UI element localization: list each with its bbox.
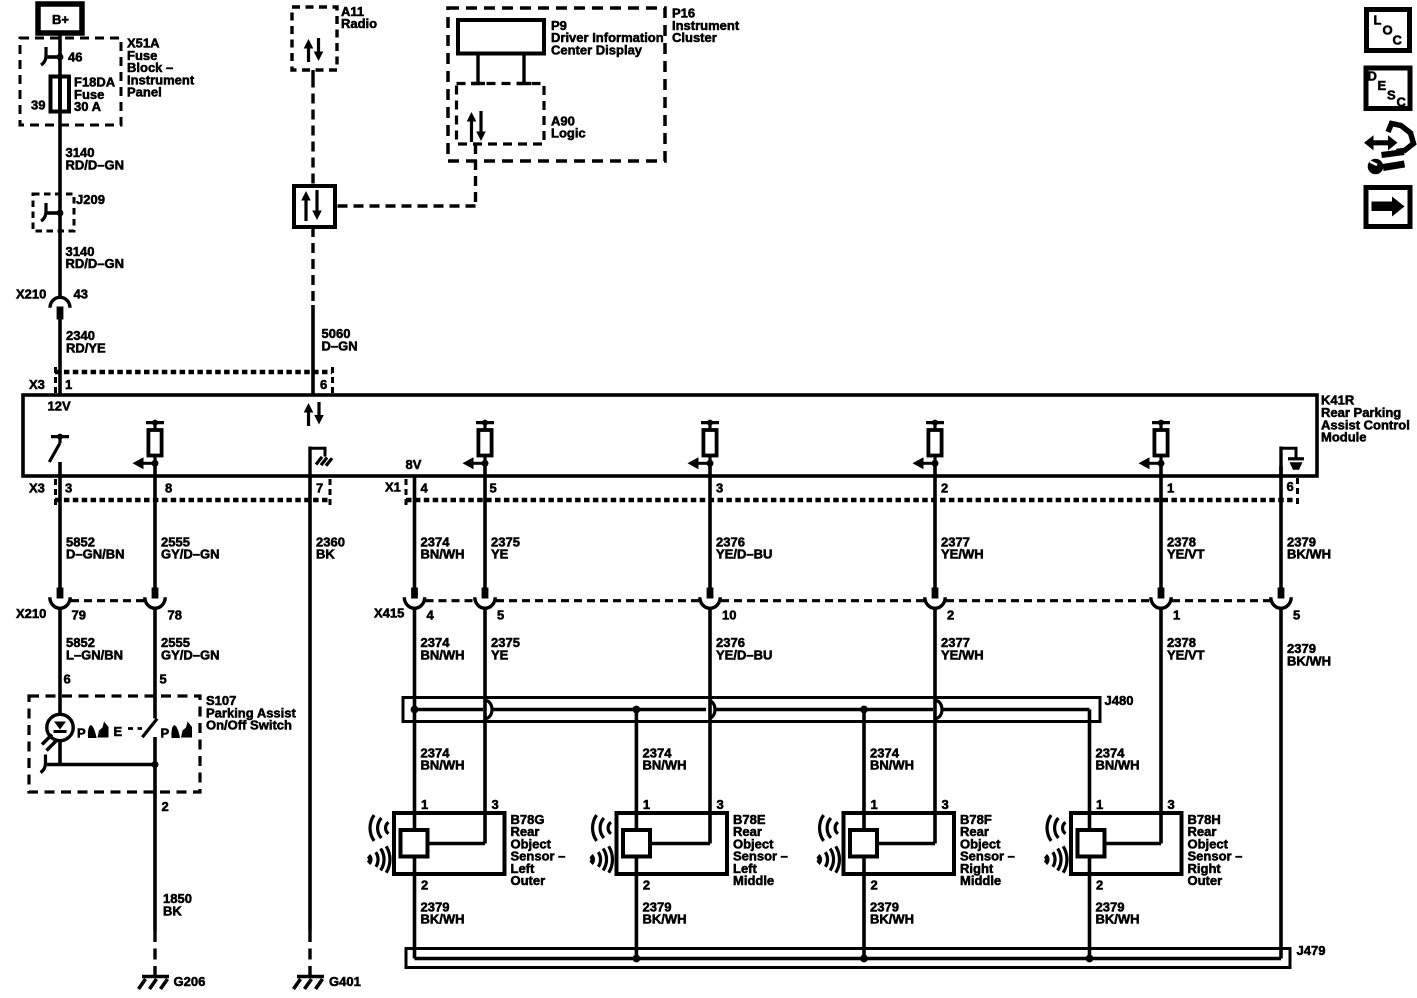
svg-text:YE/WH: YE/WH xyxy=(941,647,984,662)
svg-text:1: 1 xyxy=(1167,481,1174,496)
svg-text:BN/WH: BN/WH xyxy=(643,758,687,773)
svg-text:E: E xyxy=(1378,78,1387,93)
internal driver pin 5 xyxy=(463,420,495,470)
svg-text:C: C xyxy=(1397,94,1407,109)
svg-text:BK/WH: BK/WH xyxy=(1287,653,1331,668)
svg-text:79: 79 xyxy=(72,607,86,622)
svg-text:C: C xyxy=(1393,32,1403,47)
svg-text:Logic: Logic xyxy=(551,126,586,141)
svg-text:RD/YE: RD/YE xyxy=(66,340,106,355)
svg-text:YE/D–BU: YE/D–BU xyxy=(716,547,772,562)
svg-text:RD/D–GN: RD/D–GN xyxy=(66,256,125,271)
connector X210 terminal 43 xyxy=(16,287,88,320)
svg-text:BN/WH: BN/WH xyxy=(870,758,914,773)
svg-text:1: 1 xyxy=(1096,797,1103,812)
instrument cluster P16 dashed box xyxy=(448,6,740,162)
logic block A90 dashed box xyxy=(457,84,586,145)
svg-text:3: 3 xyxy=(492,797,499,812)
legend icon diagnostic tool xyxy=(1364,124,1414,175)
serial data arrows in A11 xyxy=(304,38,324,62)
wire 3140 RD/D-GN lower xyxy=(60,231,124,299)
wire 2379 BK/WH from B78G pin2 xyxy=(415,857,465,959)
svg-text:L: L xyxy=(1374,12,1382,27)
svg-text:8V: 8V xyxy=(406,457,422,472)
parking assist icon right xyxy=(161,722,193,741)
svg-text:BK: BK xyxy=(316,547,335,562)
wire 2377 YE/WH upper xyxy=(935,466,984,588)
svg-text:RD/D–GN: RD/D–GN xyxy=(66,157,125,172)
legend icon LOC xyxy=(1367,10,1410,51)
connector row X1 xyxy=(385,478,1298,505)
wire 2375 YE upper xyxy=(485,466,520,588)
svg-text:BK/WH: BK/WH xyxy=(1096,912,1140,927)
svg-text:39: 39 xyxy=(31,98,45,113)
internal switch at pin 3 xyxy=(49,434,69,462)
svg-text:GY/D–GN: GY/D–GN xyxy=(161,547,220,562)
indicator lamp in S107 xyxy=(42,714,73,750)
svg-text:3: 3 xyxy=(1168,797,1175,812)
splice pack J479 xyxy=(406,943,1325,968)
svg-text:B+: B+ xyxy=(52,12,69,27)
svg-text:Outer: Outer xyxy=(511,873,546,888)
wire 2374 BN/WH upper xyxy=(415,477,465,588)
svg-text:5: 5 xyxy=(160,672,167,687)
ground G401 xyxy=(294,931,361,989)
dashed serial wire A90 to gateway xyxy=(335,144,476,206)
svg-text:D–GN/BN: D–GN/BN xyxy=(66,547,125,562)
wire 2379 BK/WH from B78H pin2 xyxy=(1090,857,1140,959)
sensor B78G xyxy=(369,797,566,893)
svg-text:3: 3 xyxy=(65,481,72,496)
internal driver pin 8 xyxy=(133,420,165,470)
svg-text:E: E xyxy=(114,724,123,739)
svg-text:BN/WH: BN/WH xyxy=(421,547,465,562)
svg-text:D: D xyxy=(1368,69,1377,84)
dashed serial wire A11 to gateway xyxy=(311,70,314,186)
svg-text:Cluster: Cluster xyxy=(672,30,717,45)
svg-text:46: 46 xyxy=(68,50,82,65)
wire 2379 BK/WH upper xyxy=(1281,466,1331,588)
svg-text:BN/WH: BN/WH xyxy=(421,647,465,662)
svg-text:J479: J479 xyxy=(1297,943,1326,958)
svg-text:4: 4 xyxy=(421,481,429,496)
connector row X3 bottom xyxy=(29,479,330,505)
svg-text:5: 5 xyxy=(497,607,504,622)
wire 2374 BN/WH to splice J480 xyxy=(415,609,465,710)
svg-text:BK/WH: BK/WH xyxy=(870,912,914,927)
internal ground pin 6 xyxy=(1281,447,1304,478)
svg-text:P: P xyxy=(161,726,170,741)
wire 2555 GY/D-GN upper xyxy=(155,466,220,588)
splice J209 xyxy=(33,192,105,231)
svg-text:5: 5 xyxy=(1293,607,1300,622)
wire 2375 YE to sensor xyxy=(485,609,520,813)
svg-text:1: 1 xyxy=(871,797,878,812)
svg-text:BK/WH: BK/WH xyxy=(421,912,465,927)
S107 internal wiring xyxy=(41,737,159,792)
splice pack J480 xyxy=(403,693,1133,722)
svg-text:YE/VT: YE/VT xyxy=(1167,547,1205,562)
svg-text:1: 1 xyxy=(643,797,650,812)
svg-text:1: 1 xyxy=(65,377,72,392)
svg-text:2: 2 xyxy=(162,799,169,814)
svg-text:S: S xyxy=(1387,87,1396,102)
pin 2 label S107 xyxy=(162,799,169,814)
svg-text:J480: J480 xyxy=(1105,693,1134,708)
sensor B78F xyxy=(818,797,1015,893)
svg-text:Module: Module xyxy=(1321,430,1367,445)
wire 2374 drop to B78F pin1 xyxy=(864,710,914,831)
svg-text:3: 3 xyxy=(716,481,723,496)
ground G206 xyxy=(139,931,206,989)
pin 6 label at S107 xyxy=(64,672,71,687)
wire 5060 D-GN xyxy=(313,227,358,395)
svg-text:J209: J209 xyxy=(76,192,105,207)
svg-text:Center Display: Center Display xyxy=(551,42,643,57)
driver information center display P9 xyxy=(458,18,664,58)
svg-text:12V: 12V xyxy=(48,399,71,414)
svg-text:Middle: Middle xyxy=(960,873,1001,888)
fuse block X51A dashed box xyxy=(20,36,195,126)
svg-text:Middle: Middle xyxy=(733,873,774,888)
svg-text:X210: X210 xyxy=(16,287,46,302)
terminal 46 in fuse block xyxy=(41,47,82,65)
svg-text:4: 4 xyxy=(427,607,435,622)
svg-text:X210: X210 xyxy=(16,606,46,621)
svg-text:6: 6 xyxy=(64,672,71,687)
connector row X3 top xyxy=(29,367,333,393)
connector row X415 xyxy=(374,588,1300,623)
wire 2376 YE/D-BU to sensor xyxy=(710,609,772,813)
switch actuator E and blade xyxy=(114,719,158,739)
wire 2374 drop to B78G pin1 xyxy=(415,710,465,831)
wire 1850 BK xyxy=(155,792,192,931)
wire 5852 D-GN/BN xyxy=(60,462,125,588)
svg-text:BK/WH: BK/WH xyxy=(643,912,687,927)
svg-text:6: 6 xyxy=(1287,479,1294,494)
label 12V xyxy=(48,399,71,414)
svg-text:7: 7 xyxy=(316,481,323,496)
sensor B78E xyxy=(591,797,788,893)
svg-text:Outer: Outer xyxy=(1188,873,1223,888)
wire 2378 YE/VT to sensor xyxy=(1161,609,1205,813)
svg-text:X3: X3 xyxy=(29,377,45,392)
svg-text:P: P xyxy=(77,726,86,741)
pin 5 label at S107 xyxy=(160,672,167,687)
svg-text:2: 2 xyxy=(643,878,650,893)
wire 2555 GY/D-GN lower xyxy=(155,609,220,719)
svg-text:YE/WH: YE/WH xyxy=(941,547,984,562)
svg-text:BN/WH: BN/WH xyxy=(1096,758,1140,773)
svg-text:YE/D–BU: YE/D–BU xyxy=(716,647,772,662)
svg-text:YE: YE xyxy=(491,547,509,562)
svg-text:2: 2 xyxy=(947,607,954,622)
legend icon DESC xyxy=(1366,68,1410,109)
internal ground pin 7 xyxy=(310,447,332,478)
battery feed B+ xyxy=(38,4,82,33)
svg-text:10: 10 xyxy=(722,607,736,622)
svg-text:5: 5 xyxy=(490,481,497,496)
wire 2378 YE/VT upper xyxy=(1161,466,1205,588)
svg-text:O: O xyxy=(1383,22,1393,37)
wire 2340 RD/YE xyxy=(60,319,106,395)
svg-text:3: 3 xyxy=(942,797,949,812)
sensor B78H xyxy=(1046,797,1243,893)
wire 2374 drop to B78E pin1 xyxy=(636,710,686,831)
svg-text:BK: BK xyxy=(163,903,182,918)
wire 3140 RD/D-GN upper xyxy=(60,125,124,196)
svg-text:G206: G206 xyxy=(174,974,206,989)
svg-text:Panel: Panel xyxy=(127,85,162,100)
svg-text:On/Off Switch: On/Off Switch xyxy=(206,718,292,733)
serial data arrows in module xyxy=(304,402,324,426)
svg-text:X415: X415 xyxy=(374,605,404,620)
wire 2379 BK/WH from B78F pin2 xyxy=(864,857,914,959)
wire 2360 BK xyxy=(310,477,345,931)
svg-text:43: 43 xyxy=(74,287,88,302)
P9 display legs xyxy=(471,54,531,84)
svg-text:X1: X1 xyxy=(385,480,401,495)
svg-text:2: 2 xyxy=(871,878,878,893)
internal driver pin 2 xyxy=(913,420,945,470)
serial data gateway box xyxy=(294,186,335,227)
svg-text:X3: X3 xyxy=(29,481,45,496)
svg-text:BK/WH: BK/WH xyxy=(1287,547,1331,562)
internal driver pin 1 xyxy=(1139,420,1171,470)
svg-text:78: 78 xyxy=(168,607,182,622)
svg-text:2: 2 xyxy=(421,878,428,893)
svg-text:30 A: 30 A xyxy=(74,99,102,114)
svg-text:6: 6 xyxy=(320,377,327,392)
svg-text:D–GN: D–GN xyxy=(322,338,358,353)
svg-text:G401: G401 xyxy=(329,974,361,989)
svg-text:Radio: Radio xyxy=(341,16,377,31)
svg-text:1: 1 xyxy=(421,797,428,812)
svg-text:YE: YE xyxy=(491,647,509,662)
svg-text:YE/VT: YE/VT xyxy=(1167,647,1205,662)
svg-text:3: 3 xyxy=(717,797,724,812)
wire 2379 BK/WH from B78E pin2 xyxy=(636,857,686,959)
fuse F18DA 30A xyxy=(31,57,116,125)
serial data arrows in A90 xyxy=(467,111,486,142)
label 8V xyxy=(406,457,422,472)
radio A11 dashed box xyxy=(292,4,377,70)
svg-text:L–GN/BN: L–GN/BN xyxy=(66,647,123,662)
wire 2374 drop to B78H pin1 xyxy=(1090,710,1140,831)
wire 5852 L-GN/BN xyxy=(60,609,123,715)
wire B+ to fuse block xyxy=(58,33,62,57)
internal driver pin 3 xyxy=(688,420,720,470)
connector X210 row xyxy=(16,588,182,623)
svg-text:1: 1 xyxy=(1173,607,1180,622)
switch S107 dashed box xyxy=(29,693,297,792)
wire 2377 YE/WH to sensor xyxy=(935,609,984,813)
wire 2376 YE/D-BU upper xyxy=(710,466,772,588)
wire 2379 BK/WH to splice J479 xyxy=(1281,609,1331,959)
svg-text:8: 8 xyxy=(165,481,172,496)
parking assist icon left xyxy=(77,722,109,741)
svg-text:2: 2 xyxy=(941,481,948,496)
svg-text:GY/D–GN: GY/D–GN xyxy=(161,647,220,662)
legend icon forward arrow xyxy=(1366,188,1410,227)
svg-text:BN/WH: BN/WH xyxy=(421,758,465,773)
svg-text:2: 2 xyxy=(1096,878,1103,893)
module K41R box xyxy=(23,393,1410,477)
